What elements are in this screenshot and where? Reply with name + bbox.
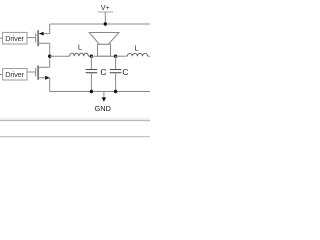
wire driver U2 to Q2 gate — [27, 71, 36, 73]
wire node A to node B (under speaker) — [91, 55, 115, 57]
svg-text:Driver: Driver — [5, 70, 24, 79]
node junction C1 ground — [90, 90, 93, 93]
horizontal rule (row separator) — [0, 136, 150, 138]
wire driver U1 to Q1 gate — [27, 37, 36, 39]
inductor L2 — [127, 44, 147, 57]
wire V+ rail — [50, 23, 150, 25]
node OUT junction — [48, 55, 51, 58]
wire L1 to node A — [88, 55, 91, 57]
speaker LS1 — [89, 33, 119, 57]
node A junction — [90, 55, 93, 58]
driver U2 — [3, 69, 27, 80]
transistor Q2 (low-side MOSFET) — [36, 65, 50, 79]
V+ supply symbol — [98, 5, 113, 24]
ground GND symbol — [94, 92, 110, 114]
transistor Q1 (high-side MOSFET) — [36, 30, 50, 46]
wire driver U2 input stub — [0, 73, 3, 75]
capacitor C2 — [110, 56, 129, 91]
wire node OUT to L1 — [50, 55, 70, 57]
svg-text:V+: V+ — [101, 5, 110, 12]
svg-text:C: C — [122, 67, 128, 77]
wire L2 to right edge — [148, 55, 150, 57]
svg-text:C: C — [100, 67, 106, 77]
node junction V+ rail — [104, 22, 107, 25]
svg-text:L: L — [134, 44, 138, 53]
wire Q1 source to node OUT — [49, 43, 51, 56]
svg-text:Driver: Driver — [5, 34, 24, 43]
svg-text:GND: GND — [94, 104, 110, 113]
wire node B to L2 — [116, 55, 128, 57]
wire Q2 source to ground rail — [49, 78, 51, 92]
node junction C2 ground — [114, 90, 117, 93]
capacitor C1 — [86, 56, 107, 91]
node B junction — [114, 55, 117, 58]
driver U1 — [3, 32, 27, 44]
wire Q2 drain to node OUT — [49, 56, 51, 67]
svg-text:L: L — [78, 42, 82, 51]
wire ground rail — [50, 91, 150, 93]
inductor L1 — [70, 42, 89, 56]
wire Q1 drain to V+ rail — [49, 24, 51, 34]
wire driver U1 input stub — [0, 37, 3, 39]
horizontal rule (panel top border) — [0, 117, 150, 121]
